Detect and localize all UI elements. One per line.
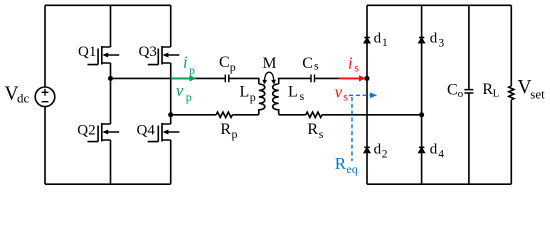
svg-text:L: L: [493, 87, 500, 99]
svg-text:L: L: [240, 84, 250, 101]
svg-text:s: s: [319, 127, 324, 141]
svg-text:v: v: [335, 83, 343, 102]
svg-text:C: C: [302, 55, 313, 72]
svg-text:s: s: [314, 59, 319, 73]
svg-text:p: p: [186, 90, 192, 104]
svg-text:d: d: [430, 31, 438, 47]
svg-text:o: o: [458, 88, 464, 100]
svg-text:i: i: [183, 53, 188, 72]
svg-text:Q1: Q1: [78, 44, 96, 60]
svg-text:d: d: [374, 141, 382, 157]
svg-text:1: 1: [382, 37, 388, 49]
svg-text:3: 3: [438, 38, 444, 50]
svg-text:R: R: [220, 121, 231, 138]
svg-text:R: R: [307, 121, 318, 138]
svg-text:dc: dc: [17, 91, 30, 106]
svg-text:C: C: [219, 54, 230, 71]
svg-text:R: R: [335, 154, 347, 173]
svg-text:d: d: [430, 141, 438, 157]
svg-text:p: p: [230, 60, 236, 74]
svg-text:p: p: [232, 127, 238, 141]
svg-text:s: s: [343, 90, 348, 104]
svg-text:p: p: [250, 90, 256, 104]
svg-text:i: i: [348, 53, 353, 72]
svg-text:s: s: [300, 89, 305, 103]
svg-text:s: s: [354, 61, 359, 75]
svg-text:L: L: [288, 84, 298, 101]
svg-text:v: v: [176, 81, 184, 100]
svg-text:2: 2: [382, 148, 388, 160]
svg-text:d: d: [374, 31, 382, 47]
svg-text:Q3: Q3: [139, 44, 157, 60]
svg-text:Q2: Q2: [77, 122, 95, 138]
svg-text:eq: eq: [346, 162, 357, 176]
svg-text:set: set: [530, 87, 545, 102]
svg-text:Q4: Q4: [137, 123, 156, 139]
svg-text:C: C: [447, 81, 458, 98]
svg-text:M: M: [263, 55, 277, 72]
svg-text:4: 4: [438, 148, 444, 160]
svg-text:p: p: [189, 63, 195, 77]
